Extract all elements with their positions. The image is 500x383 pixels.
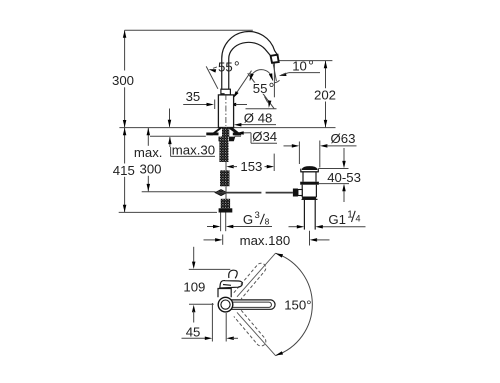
svg-text:150°: 150°: [284, 298, 311, 313]
svg-text:max.180: max.180: [240, 233, 291, 248]
svg-text:4: 4: [356, 213, 361, 223]
svg-text:55°: 55°: [253, 81, 275, 97]
svg-text:G: G: [243, 212, 253, 227]
svg-text:max.: max.: [134, 145, 163, 160]
svg-text:max.30: max.30: [172, 142, 215, 157]
svg-text:40-53: 40-53: [327, 170, 361, 185]
svg-text:Ø 48: Ø 48: [244, 111, 273, 126]
svg-text:G1: G1: [328, 212, 346, 227]
svg-text:415: 415: [113, 163, 135, 178]
svg-text:45: 45: [186, 325, 201, 340]
svg-text:109: 109: [183, 280, 205, 295]
svg-text:300: 300: [112, 73, 134, 88]
svg-text:35: 35: [186, 89, 201, 104]
svg-text:153: 153: [240, 159, 262, 174]
svg-text:202: 202: [314, 88, 336, 103]
svg-text:Ø63: Ø63: [331, 131, 356, 146]
svg-text:300: 300: [140, 162, 162, 177]
svg-text:8: 8: [265, 216, 270, 226]
svg-text:3: 3: [255, 210, 260, 221]
svg-text:Ø34: Ø34: [252, 129, 277, 144]
